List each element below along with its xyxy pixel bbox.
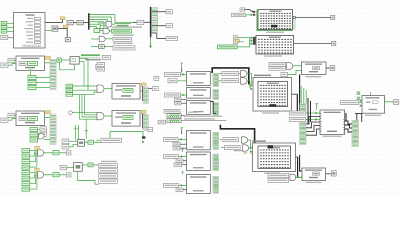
block sawtooth scope 2 xyxy=(167,118,226,122)
block CODE xyxy=(166,36,178,40)
wire CVM1 to CVM2 xyxy=(73,22,77,24)
wire L1 verticals xyxy=(74,125,79,140)
wire In3 to block xyxy=(7,30,14,32)
goto tag yellow SAT xyxy=(46,111,51,114)
caption Frame Buffer I xyxy=(252,140,266,141)
wire tagB-gateB xyxy=(100,30,112,32)
wire In2 to block xyxy=(7,26,14,28)
wire B4s xyxy=(182,161,187,165)
block grid display 1 xyxy=(258,10,293,30)
caption row B xyxy=(113,35,134,36)
wires nested into gate N2 xyxy=(80,95,98,119)
wire N2 drop xyxy=(142,113,144,128)
block FDM multiplexer B3 xyxy=(187,131,219,150)
gate sum B xyxy=(103,28,109,34)
caption Frame Buffer II xyxy=(254,75,271,77)
wire fromstack 1 xyxy=(36,76,50,78)
wire fromstack 3 xyxy=(36,86,50,88)
block FM feed label xyxy=(341,101,359,105)
block gd2 source a xyxy=(234,36,238,39)
mux column RF top xyxy=(300,103,306,110)
wire green into gateA xyxy=(98,23,106,25)
block FM modulator xyxy=(362,96,385,114)
mux column N2 xyxy=(144,114,149,130)
label gd1 feed xyxy=(232,13,246,17)
wire FM bottom black xyxy=(355,114,362,122)
wire FB2 green drops xyxy=(250,81,253,90)
wire gateA to bus left box xyxy=(132,21,139,23)
tag From k0-3 xyxy=(30,138,38,142)
tag From stack mid 1 xyxy=(28,75,36,79)
wire leftbox-bus xyxy=(144,21,150,23)
block O wide 1 xyxy=(164,72,180,76)
block L2 stack 4 xyxy=(99,179,118,183)
wire pcm source xyxy=(15,59,16,61)
terminator gd1 xyxy=(331,15,335,19)
label box row B xyxy=(113,37,132,41)
wire gate1 out xyxy=(112,23,115,25)
gate sum A xyxy=(106,21,112,27)
block L2 stack 1 xyxy=(99,163,118,167)
wire FB2 a xyxy=(219,74,252,84)
wire tap1 xyxy=(152,11,166,13)
gate FB2 b xyxy=(241,78,247,85)
wire gd2 in cluster xyxy=(237,36,256,47)
block B4 feed wide xyxy=(164,155,179,159)
block B3 feed wide xyxy=(164,137,179,141)
wire PN in xyxy=(293,65,302,67)
wire FB1 b xyxy=(221,147,253,153)
block CVM 1 xyxy=(67,20,73,24)
tag From k0-2 xyxy=(30,133,38,137)
tag From stack mid 3 xyxy=(28,85,36,89)
block LPF pair xyxy=(96,63,105,72)
mux column PCM xyxy=(50,59,56,89)
block FB2 feed b xyxy=(222,78,239,82)
tag green small B xyxy=(94,29,100,33)
block CVM 2 xyxy=(77,20,83,24)
gate merge N2 xyxy=(97,112,104,119)
terminator PN xyxy=(330,66,335,71)
caption between B2 B3 xyxy=(184,112,222,120)
tag From stack mid 2 xyxy=(28,80,36,84)
wire FIFO xyxy=(288,70,302,74)
wire bold B1-to-FB2 xyxy=(212,68,249,85)
caption green CDMA left xyxy=(70,54,100,57)
block PN feed a xyxy=(269,62,286,66)
wire B3s xyxy=(180,144,187,148)
goto tag yellow A xyxy=(60,17,65,20)
wire tag stem A xyxy=(62,20,64,23)
wire gd2 out xyxy=(264,44,332,57)
block FDM multiplexer B5 xyxy=(187,175,219,194)
wire tap2 xyxy=(152,25,166,27)
bus vertical main xyxy=(150,7,152,37)
wire fromstack 2 xyxy=(36,81,50,83)
blob gd1 bottom xyxy=(271,25,278,28)
wire FM top green xyxy=(365,92,381,116)
block LPK xyxy=(158,120,166,124)
wire green RF top xyxy=(315,103,318,110)
block Settings/Model-Info main parameter block xyxy=(14,13,46,49)
label green gd2 xyxy=(218,45,238,49)
block FB2 feed a xyxy=(222,71,239,75)
wire FB1 a xyxy=(220,140,251,148)
block small converter A xyxy=(52,26,58,31)
mux column RF right xyxy=(352,121,358,147)
bus port column xyxy=(152,7,158,32)
wire L2 in xyxy=(67,167,74,169)
wire RF inputs xyxy=(306,98,345,135)
block tiny N2 xyxy=(148,128,153,132)
port tag In3 (green) xyxy=(1,30,7,33)
gate FB1 a xyxy=(242,137,248,143)
block BER feed b xyxy=(268,178,289,182)
block 12 SAT Up Converter xyxy=(16,111,45,126)
block O small xyxy=(65,37,70,41)
terminator gd2 xyxy=(332,41,336,45)
port tag SAT gray xyxy=(1,118,8,122)
block BER feed a xyxy=(268,173,289,177)
wire vertical PN down xyxy=(299,75,301,112)
wire RF outputs xyxy=(345,113,353,132)
goto yellow gd2 xyxy=(235,39,239,42)
block FDM multiplexer B2 xyxy=(187,100,219,115)
block k0 box a xyxy=(40,127,47,131)
wire FB2 out xyxy=(262,94,297,113)
wire L1 loop right xyxy=(93,132,143,143)
wire greens above rf column xyxy=(301,86,306,103)
wire RF b xyxy=(306,118,321,121)
tag green L1 out xyxy=(88,140,93,144)
caption initial PCM xyxy=(112,26,142,27)
block FB1 feed b xyxy=(225,145,241,149)
wire FB2 b xyxy=(219,80,251,82)
wire B1 topleft tick xyxy=(181,62,184,72)
wire sat tag xyxy=(8,118,16,120)
label box row C xyxy=(113,46,135,50)
wire pcm out xyxy=(45,62,51,64)
wire green out of settings xyxy=(45,30,52,32)
gate PN xyxy=(287,63,293,70)
wire B5s xyxy=(183,189,187,191)
port tag In2 (green) xyxy=(1,26,7,29)
wire drops to N1 xyxy=(84,59,88,91)
wire N1 drop xyxy=(140,86,143,101)
block L1 combine xyxy=(78,140,85,147)
cluster sum-to-goto K1 xyxy=(22,146,71,169)
block L2 stack 2 xyxy=(99,169,118,173)
wire B5a xyxy=(179,184,187,187)
wire O1b xyxy=(177,80,187,82)
block RF feed a xyxy=(290,111,306,115)
cluster sum-to-goto K2 xyxy=(22,168,71,191)
block PN Sequence xyxy=(302,62,327,75)
block gray mid box xyxy=(102,55,110,59)
block sawtooth scope 1 xyxy=(167,114,186,118)
caption L2 stack xyxy=(101,161,117,162)
wire bus down green xyxy=(149,37,152,48)
tags feeding gate N1 xyxy=(66,84,97,96)
wire B4 topleft tick xyxy=(181,149,184,152)
block FB2 grid display xyxy=(258,82,288,107)
caption near FB1 xyxy=(234,150,247,154)
mux column SAT xyxy=(50,114,56,144)
wire L1 join b xyxy=(69,144,78,146)
bus fan-out green staircase xyxy=(89,13,115,30)
wire B2 output xyxy=(210,102,216,114)
caption row C xyxy=(113,43,133,44)
block B5 feed wide xyxy=(164,183,179,187)
wire O1 xyxy=(180,73,186,76)
block gd1 source small xyxy=(240,8,245,11)
label 1.3M green text xyxy=(116,22,132,26)
block k0 box b xyxy=(40,132,47,136)
wire B3a xyxy=(178,138,186,141)
wire B4a xyxy=(179,155,187,158)
block B3 feed s2 xyxy=(173,146,180,150)
block PN feed b xyxy=(269,66,286,70)
block L1 b xyxy=(62,145,69,149)
caption gray mid xyxy=(85,59,101,61)
blob FB1 top xyxy=(268,145,274,148)
caption RF BB name xyxy=(323,136,342,137)
wire FB1 out xyxy=(264,157,298,177)
goto tag yellow B xyxy=(63,25,68,28)
wire BER out xyxy=(306,174,332,183)
block mini source cluster xyxy=(57,57,88,70)
port tag PCM gray xyxy=(1,63,8,67)
wire L2 loop xyxy=(78,171,99,184)
wire pcm tag xyxy=(8,63,16,65)
block bus tap 2 xyxy=(166,24,172,28)
goto yellow FB1 xyxy=(252,151,256,154)
block FDM multiplexer B1a xyxy=(187,71,219,86)
goto yellow N1 xyxy=(141,83,146,86)
gate row B xyxy=(91,36,113,42)
wire sat out xyxy=(45,117,51,119)
gate BER xyxy=(290,174,296,180)
wire CVM2 to bus xyxy=(83,22,89,24)
block gd2 source b xyxy=(234,40,238,43)
block PCM source xyxy=(8,58,15,62)
wire vertical FB2 down xyxy=(296,94,298,111)
block O small 2 xyxy=(175,98,187,105)
block FC SAT Up Converter 1 xyxy=(112,84,140,100)
wire PN out xyxy=(306,68,331,77)
gate FB2 a xyxy=(241,70,247,77)
block O small 1 xyxy=(168,79,177,83)
block RF feed b xyxy=(290,117,306,121)
block O tiny left xyxy=(154,76,159,80)
block FDM multiplexer B1b xyxy=(187,87,219,99)
block row C small xyxy=(91,45,113,49)
wire k0 a xyxy=(38,130,50,140)
block L2 gain xyxy=(74,163,83,172)
gate k0 xyxy=(39,133,44,139)
wire RF a xyxy=(306,112,321,115)
goto tag yellow PCM xyxy=(46,56,51,59)
goto yellow N2 xyxy=(141,110,146,113)
node circle N2 input xyxy=(69,111,97,115)
wire long descender xyxy=(85,119,88,139)
block B5 feed s1 xyxy=(176,188,183,192)
tag From k0-1 xyxy=(30,128,38,132)
goto yellow FB2 xyxy=(252,81,256,84)
block FC SAT Up Converter 2 xyxy=(112,111,140,127)
terminator BER xyxy=(331,171,336,176)
block O wide 2 xyxy=(165,93,181,97)
block FIFO small xyxy=(281,72,288,76)
wire N1 in xyxy=(104,88,112,90)
port tag TX (gray) xyxy=(1,35,8,39)
block L2 stack 3 xyxy=(99,174,118,178)
blob FB2 bottom xyxy=(270,104,277,106)
block B4 feed s1 xyxy=(176,159,183,163)
block L1 a xyxy=(62,139,69,143)
wire sat source xyxy=(15,114,16,116)
wire N2 in xyxy=(104,115,112,117)
wire L1 join a xyxy=(69,140,78,142)
wire tap3 xyxy=(151,33,166,38)
block N1 right a xyxy=(148,87,158,91)
wire gd1 out xyxy=(266,16,331,33)
block Bit Error Rate Calculator xyxy=(302,168,326,181)
block B4 feed s2 xyxy=(174,163,182,167)
wire gd1 in xyxy=(245,10,256,17)
block wide N2 label xyxy=(164,109,180,113)
highlight green edge gd1 xyxy=(257,10,296,31)
block sat source xyxy=(8,113,15,117)
block PCM Up Converter xyxy=(16,56,45,71)
wire O2 xyxy=(181,94,187,97)
port tag L2 gray xyxy=(60,165,67,169)
block Frame Buffer II frame xyxy=(253,78,292,112)
block FM scope rounded xyxy=(394,99,399,104)
port tag In1 (green) xyxy=(1,22,7,25)
gate FB1 b xyxy=(243,145,249,151)
wire L1 out xyxy=(85,141,89,143)
block FB1 grid display xyxy=(258,146,291,169)
wire L2 out xyxy=(82,164,99,166)
label green data rate xyxy=(112,29,132,33)
block B3 feed s1 xyxy=(173,142,180,146)
wire In1 to block xyxy=(7,22,14,24)
wire bold to-FB1 xyxy=(220,125,254,143)
wire B5 topleft tick xyxy=(181,171,184,174)
block RF BB up converter xyxy=(320,110,345,135)
block Frame Buffer I frame xyxy=(253,143,296,172)
block left of bus xyxy=(137,20,144,24)
block FB1 feed a xyxy=(223,138,239,142)
wire BER in2 xyxy=(300,155,302,171)
mux column N1 xyxy=(144,87,149,103)
mux column RF left xyxy=(300,122,306,144)
tag green L2 xyxy=(88,163,93,167)
wire TX to block xyxy=(8,37,14,39)
block bus tap 1 xyxy=(166,10,172,14)
wire BER in bright xyxy=(296,176,302,178)
wire settings to cluster xyxy=(45,22,63,24)
wire converterA down xyxy=(58,29,67,38)
block label M xyxy=(96,138,121,142)
gate merge N1 xyxy=(97,85,104,92)
wire fromstack drop xyxy=(29,69,33,75)
wire FM out xyxy=(385,101,394,103)
wire FM in xyxy=(357,91,362,107)
wire B3 topleft tick xyxy=(181,127,184,134)
block grid display 2 xyxy=(256,36,294,55)
junction L1 loop end xyxy=(142,136,145,143)
block FDM multiplexer B4 xyxy=(187,152,219,171)
